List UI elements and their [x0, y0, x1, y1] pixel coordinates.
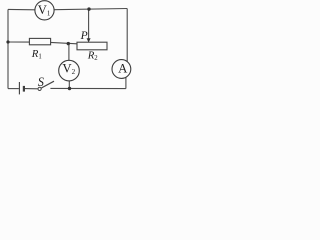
- wire top left (to V1): [8, 8, 35, 10]
- wire bottom (switch to ammeter): [50, 87, 126, 89]
- svg-text:R1: R1: [31, 48, 42, 61]
- node middle (junction dot): [67, 42, 70, 45]
- node top (junction dot): [87, 7, 90, 10]
- ammeter A: [112, 60, 131, 79]
- svg-text:R2: R2: [87, 50, 99, 63]
- wire V2 bottom stem: [68, 81, 70, 89]
- voltmeter V1: [35, 1, 54, 20]
- voltmeter V2: [59, 60, 80, 81]
- wire middle branch (node to R1): [8, 41, 29, 43]
- svg-text:S: S: [38, 75, 44, 89]
- switch S: [38, 81, 54, 90]
- wire battery to switch: [25, 88, 38, 90]
- rheostat R2: [77, 42, 107, 50]
- battery: [19, 82, 24, 94]
- slider arrow P: [87, 38, 91, 42]
- wire V2 top stem: [68, 44, 70, 61]
- wire ammeter bottom stub: [125, 78, 127, 89]
- wire left vertical: [7, 9, 9, 88]
- node bottom (junction dot): [68, 87, 71, 90]
- wire slider stem: [88, 9, 90, 39]
- wire right vertical: [126, 9, 128, 62]
- wire bottom left (corner to battery): [8, 88, 19, 90]
- svg-text:P: P: [80, 29, 88, 42]
- wire R1 to R2: [51, 42, 77, 43]
- resistor R1: [29, 38, 50, 44]
- wire top right (V1 to corner): [54, 9, 127, 10]
- svg-text:A: A: [118, 61, 128, 75]
- node left (junction dot): [6, 40, 9, 43]
